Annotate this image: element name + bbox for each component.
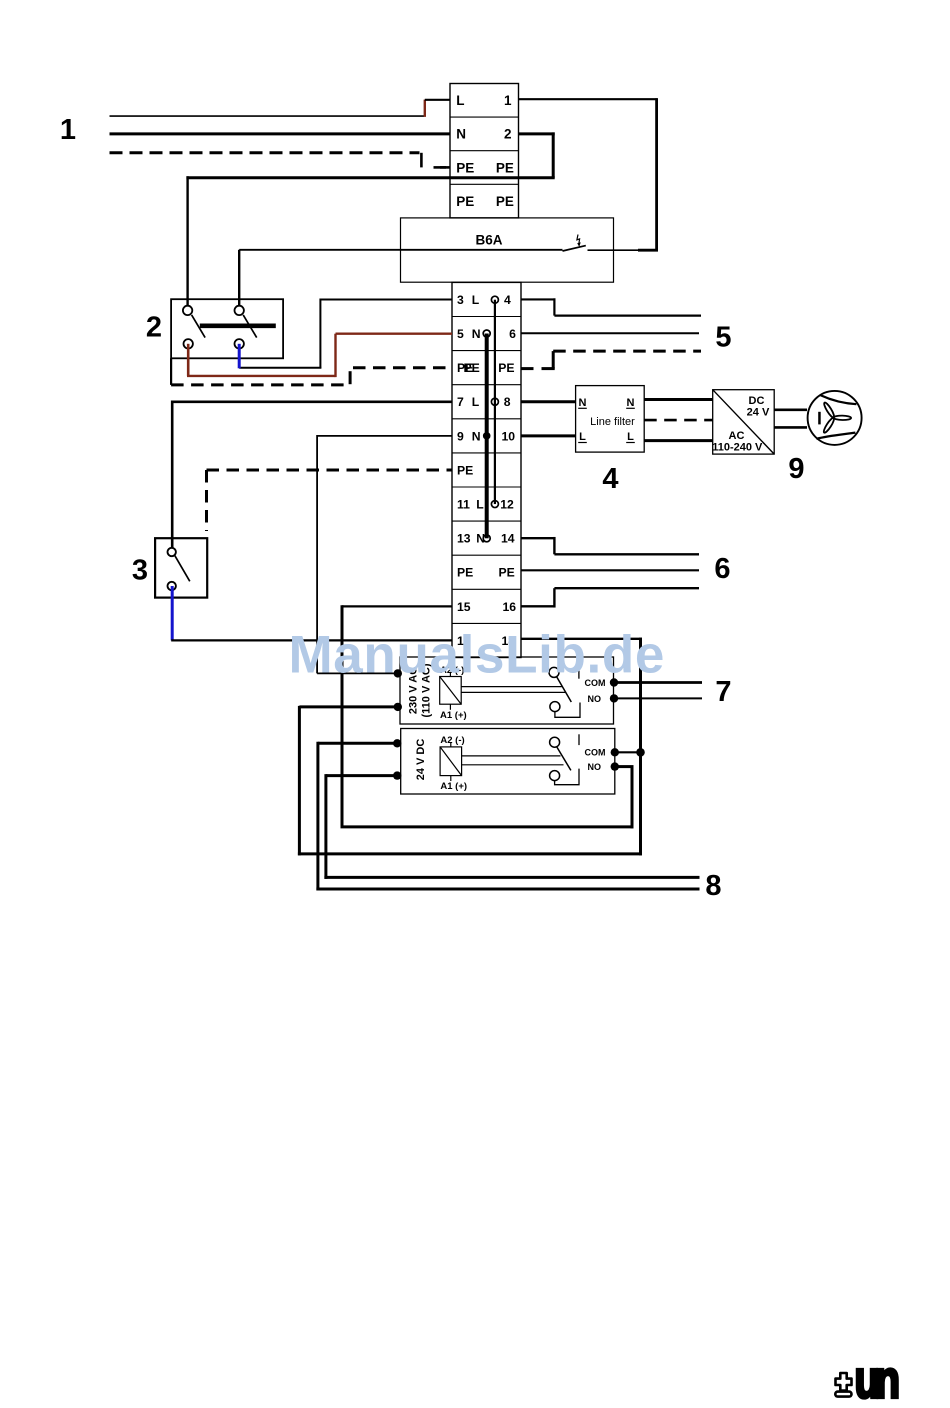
svg-text:PE: PE — [496, 160, 514, 175]
svg-text:PE: PE — [457, 463, 473, 477]
svg-text:3: 3 — [132, 555, 148, 587]
svg-text:PE: PE — [456, 160, 474, 175]
svg-text:PE: PE — [456, 194, 474, 209]
svg-text:3: 3 — [457, 293, 464, 307]
svg-text:L: L — [476, 497, 484, 511]
svg-text:6: 6 — [509, 327, 516, 341]
svg-text:110-240 V: 110-240 V — [712, 442, 763, 454]
svg-text:COM: COM — [585, 748, 606, 758]
svg-text:8: 8 — [504, 395, 511, 409]
svg-text:24 V: 24 V — [747, 406, 770, 418]
svg-text:L: L — [579, 431, 586, 443]
svg-text:NO: NO — [588, 694, 602, 704]
svg-text:7: 7 — [715, 676, 731, 708]
svg-text:NO: NO — [588, 762, 602, 772]
svg-text:10: 10 — [501, 429, 515, 443]
svg-text:7: 7 — [457, 395, 464, 409]
svg-text:PE: PE — [464, 361, 480, 375]
svg-text:12: 12 — [500, 497, 514, 511]
svg-text:PE: PE — [499, 566, 515, 580]
svg-text:AC: AC — [729, 430, 745, 442]
svg-text:1: 1 — [60, 114, 76, 146]
svg-text:DC: DC — [749, 395, 765, 407]
svg-text:4: 4 — [602, 463, 618, 495]
svg-text:N: N — [472, 429, 481, 443]
svg-text:PE: PE — [498, 361, 514, 375]
svg-text:un: un — [855, 1350, 898, 1408]
svg-text:5: 5 — [715, 322, 731, 354]
svg-text:16: 16 — [502, 600, 516, 614]
svg-text:1: 1 — [504, 93, 512, 108]
svg-text:L: L — [472, 395, 480, 409]
svg-text:9: 9 — [457, 429, 464, 443]
svg-text:PE: PE — [496, 194, 514, 209]
svg-text:Line filter: Line filter — [590, 416, 635, 428]
svg-text:N: N — [627, 397, 635, 409]
svg-text:N: N — [579, 397, 587, 409]
svg-text:PE: PE — [457, 566, 473, 580]
svg-text:11: 11 — [457, 497, 470, 511]
svg-text:14: 14 — [501, 532, 515, 546]
svg-text:N: N — [472, 327, 481, 341]
svg-text:2: 2 — [146, 312, 162, 344]
svg-text:13: 13 — [457, 532, 471, 546]
svg-text:B6A: B6A — [475, 233, 502, 248]
svg-text:5: 5 — [457, 327, 464, 341]
svg-text:L: L — [456, 93, 464, 108]
svg-text:24 V DC: 24 V DC — [415, 739, 427, 781]
svg-text:N: N — [456, 127, 466, 142]
svg-text:ManualsLib.de: ManualsLib.de — [289, 626, 666, 685]
svg-text:L: L — [627, 431, 634, 443]
svg-text:A2 (-): A2 (-) — [440, 735, 464, 746]
svg-text:A1 (+): A1 (+) — [440, 781, 467, 792]
svg-text:9: 9 — [788, 453, 804, 485]
svg-text:6: 6 — [714, 553, 730, 585]
svg-text:8: 8 — [705, 870, 721, 902]
svg-text:15: 15 — [457, 600, 471, 614]
svg-text:L: L — [472, 293, 480, 307]
svg-text:2: 2 — [504, 127, 512, 142]
svg-text:A1 (+): A1 (+) — [440, 710, 467, 721]
svg-text:4: 4 — [504, 293, 511, 307]
